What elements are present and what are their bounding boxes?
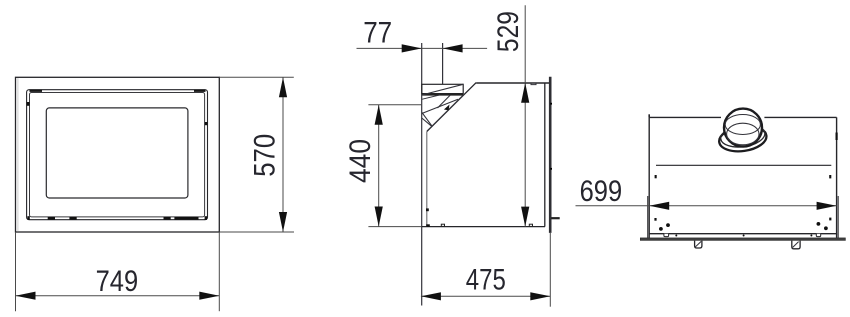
rivet dot right 1 [817,222,821,226]
rear top edge right segment [764,116,836,118]
hinge mark top-left [30,90,43,92]
frame corner tick bottom-right [205,216,207,220]
rivet dot left 2 [666,223,670,227]
dimension 440 arrow up [375,105,383,125]
door bottom hook [426,224,430,227]
mid line end square right [829,175,831,178]
bottom mark 2 [69,217,76,220]
dimension 77 arrow left-pointing [443,44,463,52]
dimension 570 arrow up [279,77,287,97]
door front face line [426,132,428,227]
flange screw dot upper [550,103,552,105]
dimension 570 line [282,77,284,232]
dimension 749 arrow right [199,292,219,300]
rivet dot left 1 [659,227,663,231]
rear base plate [640,238,845,241]
svg-text:570: 570 [248,134,281,177]
latch mark left edge [27,102,30,106]
dimension 475 line [421,295,550,297]
dimension 529 arrow up [521,83,529,103]
svg-text:440: 440 [344,139,377,183]
svg-text:77: 77 [363,17,392,50]
77 right extension line [442,43,444,84]
door latch mark [426,208,429,211]
deflector fold line under box [422,95,440,99]
door frame inner [30,93,205,217]
bottom line dot 2 [743,235,745,237]
flue collar outer ring [718,123,769,154]
dimension 440 arrow down [375,207,383,227]
bottom mark 4 [174,217,198,220]
dimension 77 arrow right-pointing [402,44,422,52]
dimension 475 arrow left [421,292,441,300]
door frame outer [27,90,208,220]
rear corner overshoot tick [648,114,650,117]
extension line 749 left [15,232,17,311]
short back-hatch lower [422,118,432,126]
dimension 529 line [524,5,526,226]
glass pane [46,108,188,198]
damper box [422,84,463,93]
small solid arrow mark on baffle [444,105,450,111]
mid line end square left [655,175,657,178]
u-notch right [816,234,820,237]
rivet dot right 2 [824,226,828,230]
side top edge [476,82,549,84]
slope inner parallel line [427,95,463,131]
rear right edge to plate [836,234,838,238]
rear flange plate [549,77,552,233]
side bottom edge [422,226,545,228]
rivet square left [654,218,656,221]
extension line 749 right [218,232,220,311]
dimension 699 arrow left [649,202,669,210]
bottom line dot 1 [675,235,677,237]
latch mark right edge [205,122,208,125]
dimension 570 arrow down [279,212,287,232]
flange screw dot lower [550,168,552,170]
flue collar outer ring inner edge [719,122,766,150]
dimension 440 line [378,105,380,227]
front casing outline [16,77,220,232]
440 bottom extension line [368,226,421,228]
dimension 475 arrow right [530,292,550,300]
dimension 77 line [357,47,488,49]
svg-text:749: 749 [96,265,139,298]
rear left flange line [647,196,649,238]
rear right edge tick [835,133,837,141]
damper box thick bottom [422,93,463,95]
u-notch left [664,234,669,237]
bottom bump left [441,224,444,226]
extension line top right of front view [219,76,293,78]
top slope 45deg [427,83,476,132]
frame corner tick bottom-left [27,216,29,220]
bottom mark 1 [48,217,55,220]
svg-text:699: 699 [580,175,623,208]
left foot [695,241,702,248]
svg-text:529: 529 [492,11,525,52]
dimension 749 arrow left [16,292,36,300]
dimension 699 line [576,205,837,207]
flange tab [551,217,559,219]
left foot diagonal [696,241,702,246]
440 top extension line [368,104,421,106]
rear body outline (no top edge) [649,117,836,233]
rear top edge left segment [649,116,721,118]
extension line bottom right of front view [219,231,294,233]
dimension 749 line [16,295,220,297]
flue collar top circle [724,109,762,147]
side front edge / extension line [421,43,423,306]
hatch mid crossing [438,95,451,108]
rivet square right [829,218,831,221]
casing left inner seam [17,78,19,232]
notch on top edge [531,83,536,85]
right foot diagonal [793,242,799,248]
flue bore upper ellipse [725,115,760,135]
bottom bump right [529,224,532,226]
rear right flange line [837,196,839,238]
dimension 699 arrow right [817,202,837,210]
short back-hatch upper [422,112,432,125]
rear mid line [656,164,831,166]
bottom mark 3 [164,217,171,220]
side back edge [544,83,546,227]
damper box diagonal [422,84,463,95]
baffle shallow diagonal [422,99,458,113]
bottom line dot 3 [810,235,812,237]
dimension 529 arrow down [521,207,529,227]
475 right extension line [549,233,551,307]
right foot [792,241,800,249]
hinge mark top-right [194,90,206,92]
rear left edge to plate [648,234,650,238]
flue bore lower ellipse [727,123,759,145]
svg-text:475: 475 [466,264,506,297]
